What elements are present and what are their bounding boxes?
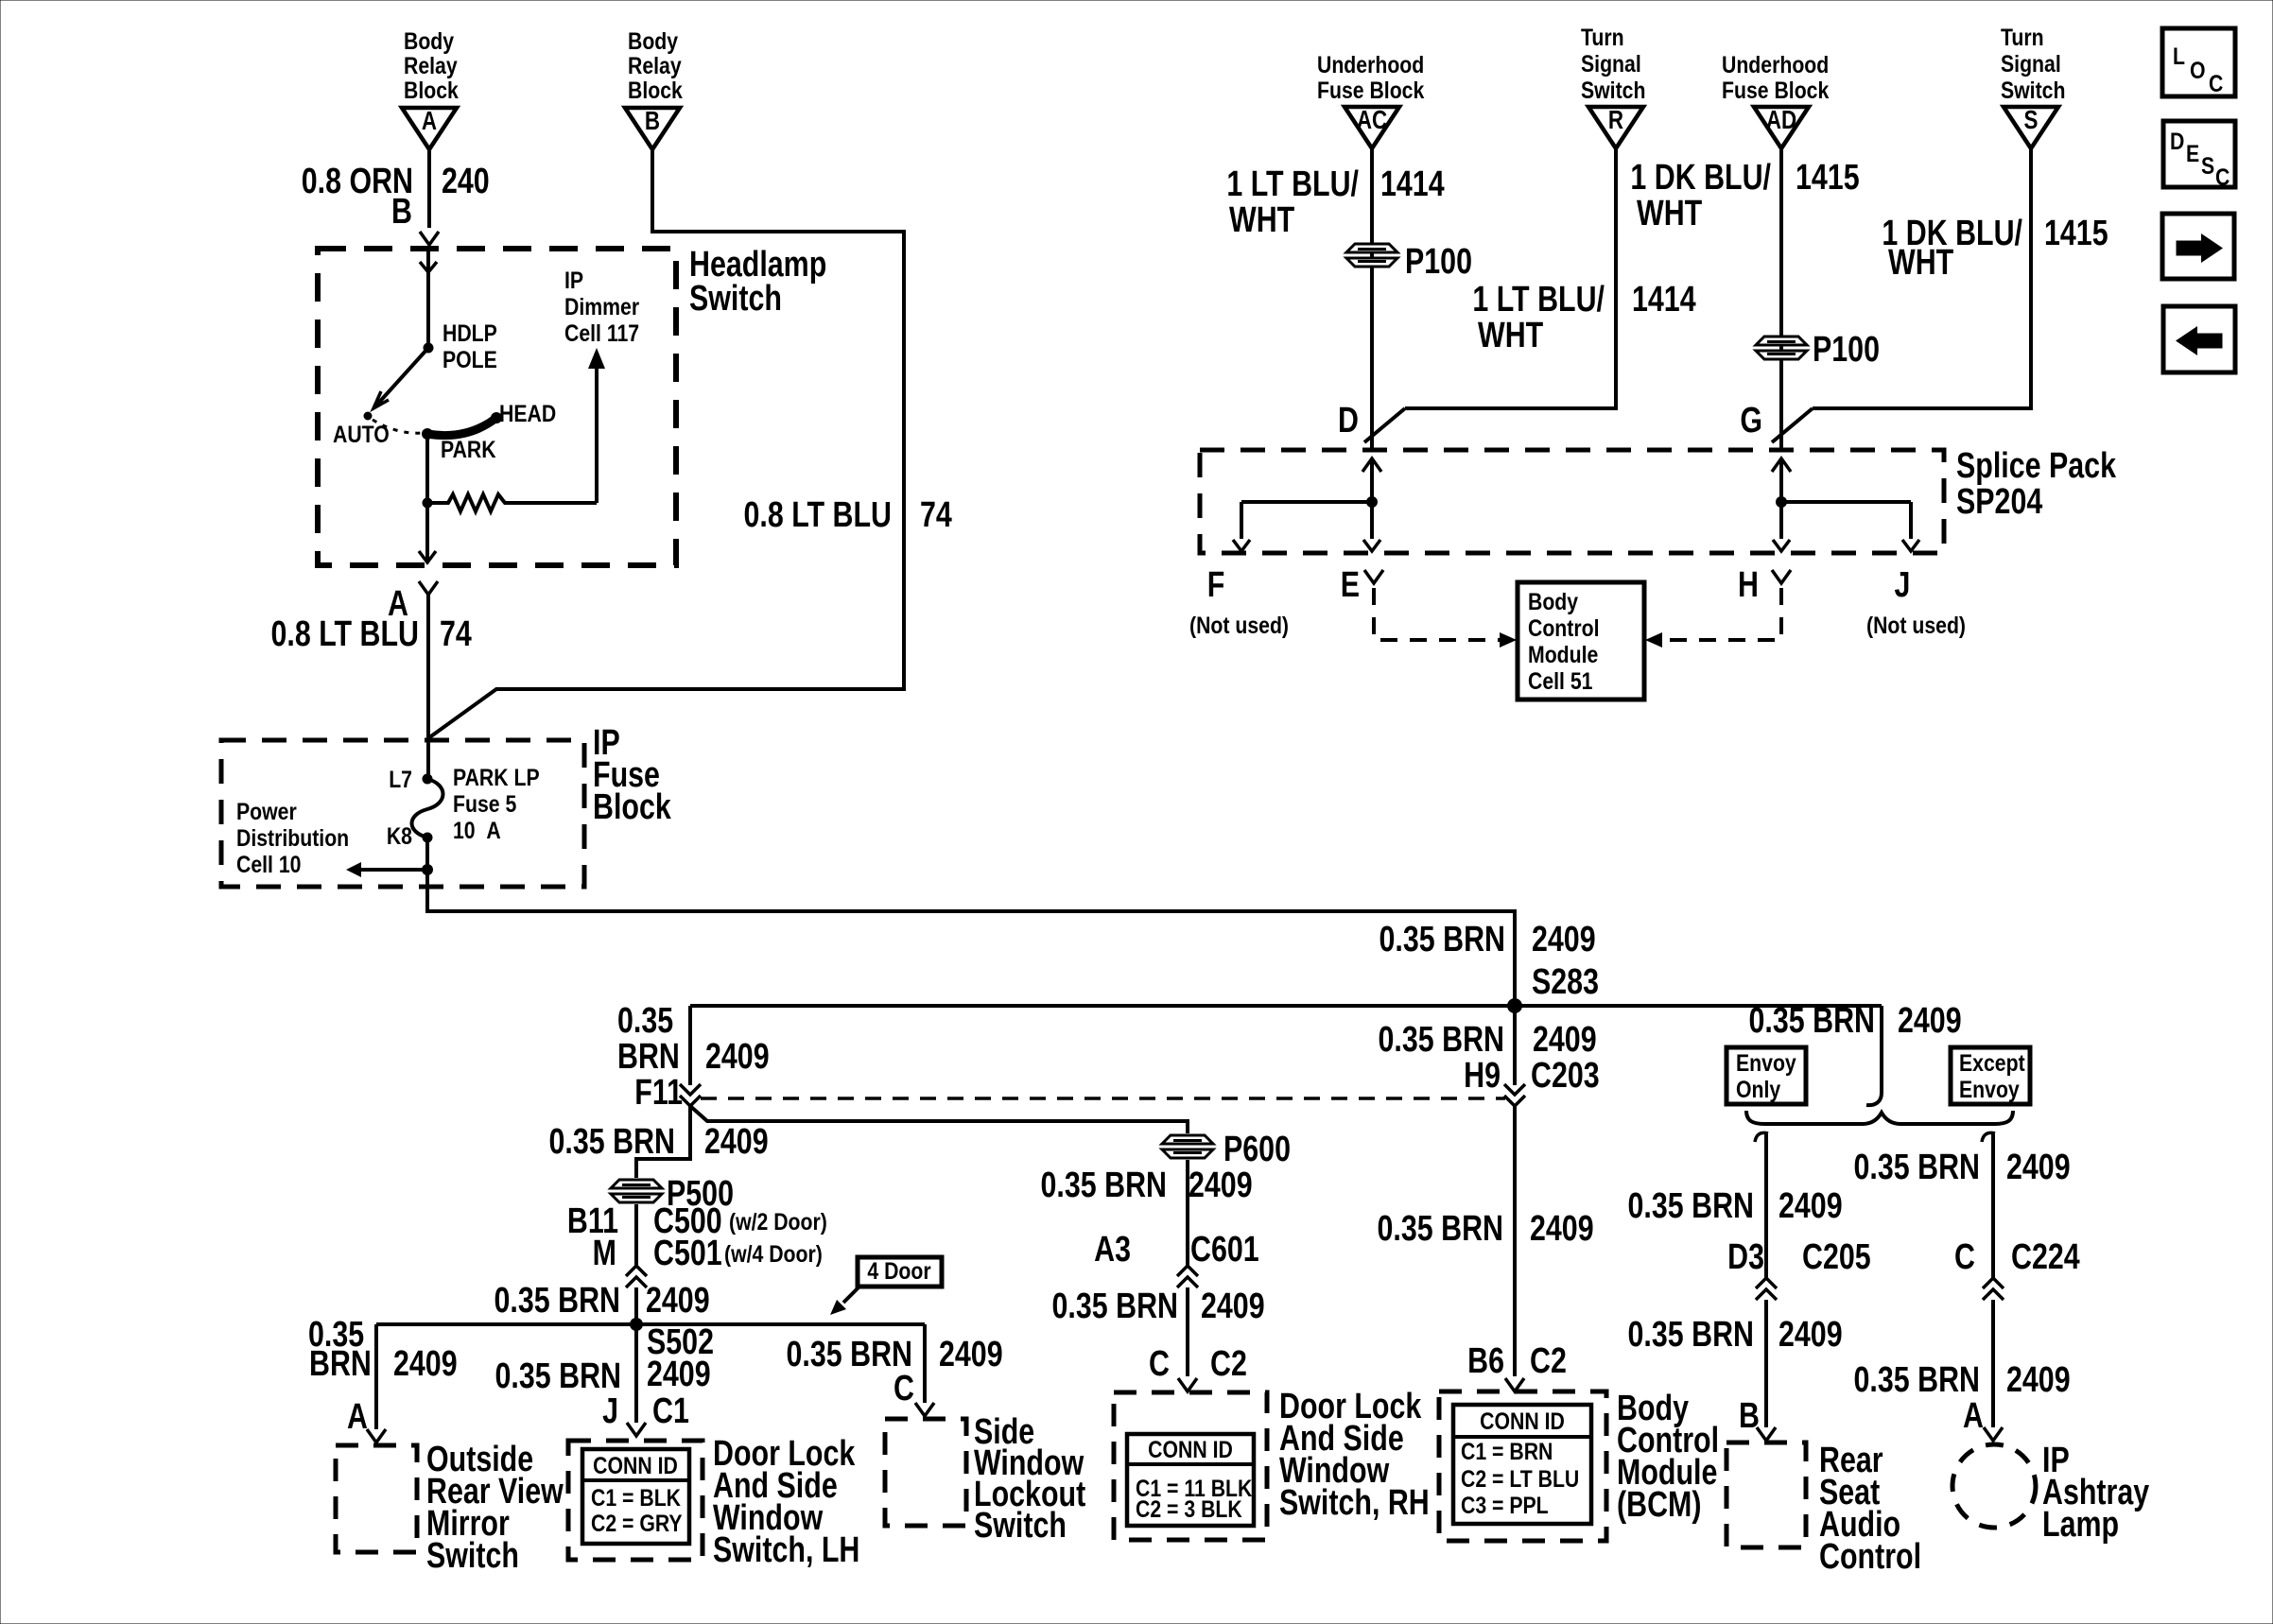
svg-text:Lamp: Lamp xyxy=(2042,1505,2119,1545)
svg-text:C224: C224 xyxy=(2011,1237,2080,1277)
wire 74 from pin A to IP fuse block xyxy=(426,595,430,779)
svg-text:Envoy: Envoy xyxy=(1959,1076,2020,1102)
svg-text:2409: 2409 xyxy=(704,1122,769,1162)
pin B of Rear Seat Audio Control xyxy=(1739,1396,1776,1441)
pin J of LH switch connector C1 xyxy=(602,1391,689,1436)
pin J (Not used) xyxy=(1866,565,1966,639)
branch wire from F11 to P600 xyxy=(690,1106,1188,1133)
svg-text:G: G xyxy=(1740,401,1762,441)
splice S502 xyxy=(630,1318,714,1362)
svg-text:D: D xyxy=(2170,128,2184,154)
svg-text:C: C xyxy=(2215,164,2230,190)
svg-text:P100: P100 xyxy=(1813,330,1880,370)
CONN ID table (LH switch) xyxy=(582,1449,689,1544)
wire P500 to connector C500/C501 xyxy=(634,1204,638,1266)
svg-text:S: S xyxy=(2201,152,2214,179)
svg-text:2409: 2409 xyxy=(1778,1186,1843,1226)
label 0.35 BRN 2409 (lockout branch) xyxy=(787,1335,1003,1374)
svg-text:CONN ID: CONN ID xyxy=(593,1452,678,1478)
svg-text:2409: 2409 xyxy=(1533,1020,1597,1060)
Outside Rear View Mirror Switch name label xyxy=(426,1440,564,1576)
svg-text:0.8 LT BLU: 0.8 LT BLU xyxy=(271,614,419,654)
svg-text:1 LT BLU/: 1 LT BLU/ xyxy=(1226,164,1359,204)
wire C224 to IP Ashtray Lamp pin A xyxy=(1991,1300,1995,1427)
svg-text:(Not used): (Not used) xyxy=(1866,612,1966,638)
svg-text:Power: Power xyxy=(236,798,297,824)
svg-text:Block: Block xyxy=(593,787,672,827)
wire 74 from Body Relay Block B around headlamp switch xyxy=(428,149,904,738)
svg-text:P600: P600 xyxy=(1223,1130,1291,1169)
label 0.35 BRN 2409 (S283 to H9) xyxy=(1379,1020,1597,1060)
svg-text:Fuse Block: Fuse Block xyxy=(1722,77,1829,103)
svg-text:(Not used): (Not used) xyxy=(1189,612,1289,638)
svg-text:2409: 2409 xyxy=(939,1335,1003,1374)
Door Lock And Side Window Switch LH dashed box xyxy=(568,1441,703,1560)
next-page arrow legend box xyxy=(2162,214,2234,279)
wire 1415 from AD to splice pack pin G xyxy=(1779,148,1783,452)
inline connector F11 xyxy=(680,1084,701,1095)
svg-text:2409: 2409 xyxy=(646,1281,710,1321)
svg-text:C2 = 3 BLK: C2 = 3 BLK xyxy=(1136,1495,1242,1522)
fuse PARK LP Fuse 5 10A xyxy=(412,764,540,843)
wire end hook at split xyxy=(1866,1093,1882,1105)
wire into headlamp switch with arrow xyxy=(420,249,437,348)
svg-text:(w/4 Door): (w/4 Door) xyxy=(724,1240,823,1267)
svg-text:E: E xyxy=(2186,140,2199,166)
svg-text:AUTO: AUTO xyxy=(333,421,390,447)
label 1 DK BLU/ WHT 1415 (AD wire) xyxy=(1630,158,1859,233)
label 0.35 BRN 2409 (C601 to RH switch) xyxy=(1052,1287,1265,1326)
svg-text:Envoy: Envoy xyxy=(1736,1049,1796,1076)
svg-text:Fuse Block: Fuse Block xyxy=(1317,77,1424,103)
svg-text:PARK LP: PARK LP xyxy=(453,764,540,790)
svg-text:10 A: 10 A xyxy=(453,817,501,843)
svg-text:WHT: WHT xyxy=(1888,243,1953,283)
svg-text:E: E xyxy=(1341,565,1360,605)
headlamp switch dashed box xyxy=(318,249,676,565)
svg-text:C205: C205 xyxy=(1802,1237,1871,1277)
Body Control Module dashed box xyxy=(1439,1391,1606,1541)
wire to IP Dimmer with arrowhead xyxy=(588,348,605,503)
svg-text:Splice Pack: Splice Pack xyxy=(1956,446,2117,486)
svg-text:A: A xyxy=(347,1397,368,1437)
svg-text:74: 74 xyxy=(440,614,472,654)
svg-text:C1: C1 xyxy=(652,1391,689,1431)
svg-text:C: C xyxy=(1954,1237,1975,1277)
svg-text:M: M xyxy=(593,1234,616,1273)
wire C203 to BCM pin B6 xyxy=(1513,1106,1517,1376)
svg-text:J: J xyxy=(1895,565,1911,605)
svg-text:C1 = BLK: C1 = BLK xyxy=(591,1484,681,1511)
wire 1415 from S to splice pack pin G xyxy=(1772,148,2031,442)
svg-text:AD: AD xyxy=(1766,106,1796,135)
wire 240 from Body Relay Block A to Headlamp Switch pin B xyxy=(427,149,431,228)
svg-text:HDLP: HDLP xyxy=(442,320,497,346)
svg-text:S283: S283 xyxy=(1532,962,1599,1002)
svg-text:Only: Only xyxy=(1736,1076,1780,1102)
Body Control Module Cell 51 box xyxy=(1518,582,1644,700)
inline connector C205 pin D3 xyxy=(1727,1237,1871,1300)
pin F (Not used) xyxy=(1189,565,1289,639)
bottom bus wire 2409 xyxy=(376,1322,925,1326)
pin C of RH switch connector C2 xyxy=(1149,1344,1247,1391)
svg-text:BRN: BRN xyxy=(309,1344,372,1384)
svg-text:0.35 BRN: 0.35 BRN xyxy=(1052,1287,1178,1326)
svg-text:D3: D3 xyxy=(1727,1237,1764,1277)
pin A of headlamp switch xyxy=(388,581,438,624)
splice pack right bus (pin G to H and J) xyxy=(1772,458,1919,551)
Body Control Module name label xyxy=(1617,1389,1719,1525)
svg-text:R: R xyxy=(1608,106,1623,135)
pin B6 of BCM connector C2 xyxy=(1467,1341,1567,1391)
svg-text:C: C xyxy=(1149,1344,1170,1384)
svg-text:D: D xyxy=(1338,401,1359,441)
svg-text:F: F xyxy=(1207,565,1225,605)
grommet P500 xyxy=(611,1174,734,1214)
dotted link AUTO to PARK xyxy=(373,420,424,433)
svg-text:J: J xyxy=(602,1391,618,1431)
node AUTO xyxy=(333,412,390,448)
connector triangle B (Body Relay Block) xyxy=(625,27,683,149)
label 0.8 LT BLU 74 (B branch) xyxy=(744,495,952,535)
label 0.35 BRN 2409 (C203 to BCM) xyxy=(1378,1209,1594,1249)
Door Lock And Side Window Switch RH dashed box xyxy=(1114,1392,1267,1540)
Side Window Lockout Switch dashed box xyxy=(885,1419,966,1526)
svg-text:Switch: Switch xyxy=(2001,77,2065,103)
Door Lock And Side Window Switch LH name label xyxy=(713,1434,859,1570)
svg-text:CONN ID: CONN ID xyxy=(1148,1436,1233,1462)
svg-text:0.35 BRN: 0.35 BRN xyxy=(1379,1020,1504,1060)
wire bus to Side Window Lockout Switch pin C xyxy=(923,1324,927,1403)
wire PARK contact down to resistor node xyxy=(425,433,429,503)
wire K8 to junction xyxy=(425,838,429,870)
svg-text:1415: 1415 xyxy=(1796,158,1860,198)
Except Envoy branch wire to connector C224 xyxy=(1982,1132,1995,1278)
svg-text:1414: 1414 xyxy=(1380,164,1445,204)
label 0.35 BRN 2409 (into S502) xyxy=(495,1281,710,1321)
svg-text:B: B xyxy=(391,192,412,232)
wire 1414 from R to splice pack pin D xyxy=(1364,148,1616,442)
wire S502 to Outside Rear View Mirror Switch pin A xyxy=(374,1324,378,1429)
svg-text:C2: C2 xyxy=(1530,1341,1567,1381)
node power distribution junction xyxy=(422,864,433,875)
svg-text:AC: AC xyxy=(1357,106,1387,135)
svg-text:WHT: WHT xyxy=(1229,200,1294,240)
splice pack name label xyxy=(1956,446,2117,522)
svg-text:2409: 2409 xyxy=(705,1037,770,1077)
svg-text:IP: IP xyxy=(564,267,583,293)
grommet P600 xyxy=(1162,1130,1291,1169)
svg-text:74: 74 xyxy=(920,495,952,535)
main bus wire 2409 xyxy=(690,1004,1882,1008)
svg-text:2409: 2409 xyxy=(1189,1166,1253,1205)
label 0.8 ORN 240 xyxy=(302,162,490,201)
pin A of mirror switch xyxy=(347,1397,386,1443)
pin H9 of connector C203 xyxy=(1464,1056,1600,1106)
svg-text:Turn: Turn xyxy=(1581,24,1624,50)
svg-text:C501: C501 xyxy=(653,1234,722,1273)
wire drop from bus to F11 xyxy=(688,1006,692,1085)
svg-text:(w/2 Door): (w/2 Door) xyxy=(729,1208,827,1235)
wire 2409 from fuse block to splice S283 xyxy=(427,870,1515,1006)
svg-text:0.35 BRN: 0.35 BRN xyxy=(1749,1001,1875,1041)
label 1 LT BLU/ WHT 1414 (AC wire) xyxy=(1226,164,1444,240)
switch contact arc PARK to HEAD xyxy=(427,418,496,436)
svg-text:240: 240 xyxy=(442,162,490,201)
svg-text:2409: 2409 xyxy=(1532,920,1596,959)
grommet P100 (AD wire) xyxy=(1756,330,1880,370)
label 0.35 BRN 2409 F11 xyxy=(617,1001,770,1113)
connector triangle A (Body Relay Block) xyxy=(402,27,459,149)
svg-text:2409: 2409 xyxy=(1898,1001,1962,1041)
svg-text:H9: H9 xyxy=(1464,1056,1501,1096)
wire S502 down to Door Lock Switch LH pin J xyxy=(634,1324,638,1423)
svg-text:0.35 BRN: 0.35 BRN xyxy=(1854,1360,1980,1400)
svg-text:C601: C601 xyxy=(1190,1230,1259,1270)
4 Door tag box with arrow xyxy=(830,1257,942,1315)
svg-text:H: H xyxy=(1738,565,1759,605)
svg-text:2409: 2409 xyxy=(2006,1360,2071,1400)
Door Lock And Side Window Switch RH name label xyxy=(1279,1387,1430,1523)
svg-text:0.35: 0.35 xyxy=(617,1001,673,1041)
label Power Distribution Cell 10 xyxy=(236,798,349,877)
svg-text:Fuse 5: Fuse 5 xyxy=(453,790,516,817)
connector triangle AC (Underhood Fuse Block) xyxy=(1317,51,1424,148)
wire from F11 to P500 xyxy=(636,1106,690,1178)
pin H to Body Control Module dashed wire xyxy=(1645,565,1791,648)
inline connector C224 pin C xyxy=(1954,1237,2080,1300)
svg-text:2409: 2409 xyxy=(2006,1148,2071,1187)
label 0.35 BRN 2409 (into S283) xyxy=(1379,920,1596,959)
label 0.35 BRN 2409 (Envoy split) xyxy=(1749,1001,1962,1041)
svg-text:Switch: Switch xyxy=(689,279,782,319)
svg-text:Cell 117: Cell 117 xyxy=(564,320,639,346)
svg-text:0.35 BRN: 0.35 BRN xyxy=(1041,1166,1167,1205)
svg-text:Switch: Switch xyxy=(1581,77,1645,103)
svg-text:C: C xyxy=(2209,70,2224,96)
Except Envoy tag box xyxy=(1951,1047,2030,1104)
Side Window Lockout Switch name label xyxy=(974,1412,1086,1546)
label 0.35 BRN 2409 (C205 to RSA) xyxy=(1628,1315,1843,1355)
svg-text:A: A xyxy=(1963,1396,1984,1436)
IP fuse block dashed box xyxy=(221,740,584,887)
svg-text:C: C xyxy=(894,1369,914,1408)
svg-text:P100: P100 xyxy=(1405,242,1472,282)
splice pack SP204 dashed box xyxy=(1200,450,1944,553)
svg-text:(BCM): (BCM) xyxy=(1617,1485,1701,1525)
svg-text:Switch: Switch xyxy=(426,1536,519,1576)
svg-text:1 DK BLU/: 1 DK BLU/ xyxy=(1630,158,1771,198)
svg-text:4 Door: 4 Door xyxy=(867,1257,930,1284)
headlamp switch name label xyxy=(689,245,826,319)
svg-text:F11: F11 xyxy=(634,1073,683,1113)
svg-text:BRN: BRN xyxy=(617,1037,680,1077)
label 0.35 BRN 2409 (C224 to lamp) xyxy=(1854,1360,2071,1400)
CONN ID table (BCM) xyxy=(1453,1405,1591,1524)
Rear Seat Audio Control dashed box xyxy=(1726,1443,1806,1547)
svg-text:2409: 2409 xyxy=(1530,1209,1594,1249)
DESC legend box xyxy=(2163,121,2235,190)
svg-text:Body: Body xyxy=(1528,588,1578,614)
svg-text:Underhood: Underhood xyxy=(1317,51,1424,78)
svg-text:0.8 LT BLU: 0.8 LT BLU xyxy=(744,495,892,535)
split brace xyxy=(1746,1111,2013,1124)
svg-text:2409: 2409 xyxy=(647,1355,711,1394)
svg-text:A: A xyxy=(422,107,437,136)
connector C203 dashed boundary line xyxy=(701,1097,1505,1100)
svg-text:B: B xyxy=(645,107,660,136)
pin A of IP Ashtray Lamp xyxy=(1963,1396,2003,1441)
svg-text:0.35 BRN: 0.35 BRN xyxy=(1378,1209,1503,1249)
svg-text:Cell 10: Cell 10 xyxy=(236,851,301,877)
grommet P100 (AC wire) xyxy=(1346,242,1472,282)
svg-text:0.35 BRN: 0.35 BRN xyxy=(1854,1148,1980,1187)
LOC legend box xyxy=(2162,28,2235,96)
svg-text:Distribution: Distribution xyxy=(236,824,349,851)
svg-text:O: O xyxy=(2190,57,2206,83)
svg-text:Relay: Relay xyxy=(404,52,458,78)
svg-text:A3: A3 xyxy=(1094,1230,1131,1270)
svg-text:Underhood: Underhood xyxy=(1722,51,1829,78)
svg-text:Block: Block xyxy=(628,77,683,103)
svg-text:C1 = BRN: C1 = BRN xyxy=(1461,1438,1553,1464)
svg-text:0.35 BRN: 0.35 BRN xyxy=(1628,1315,1754,1355)
wire P600 down to connector C601 xyxy=(1186,1160,1189,1266)
Rear Seat Audio Control name label xyxy=(1819,1441,1921,1577)
label 0.8 LT BLU 74 (pin A wire) xyxy=(271,614,472,654)
svg-text:C3 = PPL: C3 = PPL xyxy=(1461,1492,1549,1518)
switch arm (pole wiper) with arrowhead xyxy=(373,348,428,408)
label 0.35 BRN 2409 (Envoy branch) xyxy=(1628,1186,1843,1226)
svg-text:Cell 51: Cell 51 xyxy=(1528,667,1593,694)
wire C501 to splice S502 xyxy=(634,1287,638,1324)
IP fuse block name label xyxy=(593,723,672,827)
svg-text:1414: 1414 xyxy=(1632,280,1696,320)
pin B of headlamp switch xyxy=(391,192,439,245)
wire 1414 from AC to splice pack pin D xyxy=(1370,148,1374,452)
pin C of lockout switch xyxy=(894,1369,934,1416)
splice pack left bus (pin D to E and F) xyxy=(1233,458,1381,551)
connector triangle AD (Underhood Fuse Block) xyxy=(1722,51,1829,148)
svg-text:2409: 2409 xyxy=(1201,1287,1265,1326)
svg-text:Switch, RH: Switch, RH xyxy=(1279,1483,1430,1523)
svg-text:C2: C2 xyxy=(1210,1344,1247,1384)
CONN ID table (RH switch) xyxy=(1127,1434,1254,1526)
wire C205 to Rear Seat Audio Control pin B xyxy=(1764,1300,1768,1427)
svg-text:Signal: Signal xyxy=(2001,50,2061,77)
svg-text:Module: Module xyxy=(1528,641,1598,667)
pin E to Body Control Module dashed wire xyxy=(1341,565,1517,648)
svg-text:Control: Control xyxy=(1528,614,1600,641)
terminal K8 xyxy=(387,822,433,849)
svg-text:2409: 2409 xyxy=(393,1344,458,1384)
svg-text:C203: C203 xyxy=(1531,1056,1600,1096)
svg-text:0.35 BRN: 0.35 BRN xyxy=(1379,920,1505,959)
svg-text:C2 = LT BLU: C2 = LT BLU xyxy=(1461,1465,1579,1492)
Envoy Only tag box xyxy=(1726,1047,1806,1104)
connector triangle R (Turn Signal Switch) xyxy=(1581,24,1645,148)
label 0.35 BRN 2409 (Except Envoy branch) xyxy=(1854,1148,2071,1187)
svg-text:POLE: POLE xyxy=(442,346,497,372)
IP Ashtray Lamp dashed circle xyxy=(1952,1444,2036,1528)
labels B11 C500 M C501 xyxy=(567,1201,827,1273)
previous-page arrow legend box xyxy=(2163,306,2235,372)
svg-text:Switch: Switch xyxy=(974,1506,1067,1546)
connector triangle S (Turn Signal Switch) xyxy=(2001,24,2065,148)
wire from S283 down to connector C203 pin H9 xyxy=(1513,1006,1517,1085)
splice S283 xyxy=(1507,962,1599,1013)
svg-text:Dimmer: Dimmer xyxy=(564,293,639,320)
svg-text:Relay: Relay xyxy=(628,52,682,78)
svg-text:Switch, LH: Switch, LH xyxy=(713,1530,859,1570)
node HDLP POLE xyxy=(424,320,497,372)
svg-text:0.35 BRN: 0.35 BRN xyxy=(549,1122,675,1162)
svg-text:HEAD: HEAD xyxy=(499,400,556,426)
svg-text:CONN ID: CONN ID xyxy=(1480,1408,1565,1434)
wire C601 to Door Lock Switch RH pin C xyxy=(1186,1287,1189,1376)
wire from resistor node to headlamp switch pin A with arrow xyxy=(419,503,436,563)
svg-text:Signal: Signal xyxy=(1581,50,1641,77)
inline connector C500/C501 xyxy=(626,1266,647,1276)
svg-text:2409: 2409 xyxy=(1778,1315,1843,1355)
label 1 LT BLU/ WHT 1414 (R wire) xyxy=(1472,280,1695,355)
svg-text:Body: Body xyxy=(404,27,454,54)
svg-text:K8: K8 xyxy=(387,822,412,849)
svg-text:B6: B6 xyxy=(1467,1341,1504,1381)
svg-text:Body: Body xyxy=(628,27,678,54)
svg-text:1 LT BLU/: 1 LT BLU/ xyxy=(1472,280,1605,320)
Envoy Only branch wire to connector C205 xyxy=(1755,1132,1768,1278)
label 0.35 BRN 2409 (F11 to P500) xyxy=(549,1122,769,1162)
svg-text:0.35 BRN: 0.35 BRN xyxy=(495,1356,621,1396)
arrow to Power Distribution xyxy=(346,862,427,877)
label IP Dimmer Cell 117 xyxy=(564,267,639,346)
resistor (IP dimmer rheostat) xyxy=(427,494,597,511)
IP Ashtray Lamp name label xyxy=(2042,1441,2149,1545)
svg-text:Control: Control xyxy=(1819,1537,1921,1577)
svg-text:Block: Block xyxy=(404,77,459,103)
label 0.35 BRN 2409 (S502 to LH switch) xyxy=(495,1355,711,1396)
node resistor junction xyxy=(423,498,433,509)
Outside Rear View Mirror Switch dashed box xyxy=(336,1445,417,1552)
label 1 DK BLU/ WHT 1415 (S wire) xyxy=(1882,214,2108,283)
inline connector C601 pin A3 xyxy=(1094,1230,1259,1287)
svg-text:Except: Except xyxy=(1959,1049,2025,1076)
svg-text:S: S xyxy=(2024,106,2039,135)
label 0.35 BRN 2409 (mirror branch) xyxy=(308,1315,458,1384)
svg-text:1415: 1415 xyxy=(2044,214,2108,253)
svg-text:0.35 BRN: 0.35 BRN xyxy=(1628,1186,1754,1226)
svg-text:Turn: Turn xyxy=(2001,24,2044,50)
svg-text:PARK: PARK xyxy=(441,436,496,462)
svg-text:C2 = GRY: C2 = GRY xyxy=(591,1510,683,1536)
svg-text:WHT: WHT xyxy=(1478,316,1543,355)
wire from bus down to Envoy split xyxy=(1880,1006,1883,1093)
terminal L7 xyxy=(389,766,432,792)
svg-text:L: L xyxy=(2173,43,2185,69)
svg-text:L7: L7 xyxy=(389,766,412,792)
label 0.35 BRN 2409 (P600 wire) xyxy=(1041,1166,1253,1205)
svg-text:0.35 BRN: 0.35 BRN xyxy=(495,1281,620,1321)
svg-text:WHT: WHT xyxy=(1637,194,1702,233)
svg-text:SP204: SP204 xyxy=(1956,482,2042,522)
